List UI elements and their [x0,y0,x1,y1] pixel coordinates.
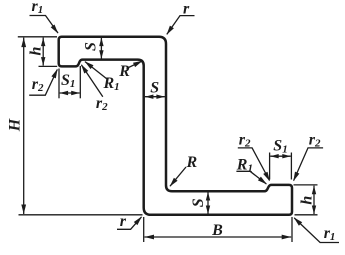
svg-text:R: R [186,154,198,171]
S bottom dimension line [207,192,209,214]
R top arrow [133,61,143,67]
h right extension bottom [295,214,318,216]
S top arrow up [99,38,103,47]
S top dimension line [100,38,102,59]
r1 bottom-right arrow [294,217,303,225]
svg-text:S: S [150,80,159,97]
h extension line [39,65,58,67]
R bottom leader [170,167,186,186]
H arrow down [21,205,26,215]
R top leader [127,61,143,68]
r2 top-left arrow [51,69,57,79]
svg-text:h: h [28,46,45,55]
r bottom-left arrow [134,216,142,225]
S top arrow down [99,50,103,59]
h right arrow down [312,206,316,215]
svg-text:h: h [298,196,315,205]
r2 bottom-step leader [238,148,270,181]
h right extension top [294,184,318,186]
S1 bottom extension right [290,153,292,180]
R1 top leader [85,62,107,79]
S1 bottom dimension line [270,155,291,157]
B dimension line [145,236,292,238]
svg-text:S: S [190,198,207,207]
S1 bottom arrow right [282,154,291,158]
r leader [167,16,195,35]
S bottom arrow up [206,192,210,201]
h right arrow up [312,186,316,195]
r1 leader [30,16,59,34]
H extension line bottom [19,214,143,216]
r1 arrow [51,25,59,34]
r2 top-step leader [81,65,102,97]
R1 bottom arrow [258,177,267,185]
S web arrow left [145,95,154,99]
S1 top dimension line [60,92,80,94]
r bottom-left leader [117,217,142,229]
r2 top-left leader [29,70,57,96]
zed profile outline [59,37,292,215]
r2 bottom-right leader [294,148,324,181]
H arrow up [21,38,26,48]
r1 bottom-right leader [294,218,339,243]
S1 bottom arrow left [270,154,279,158]
r2 top-step arrow [81,64,88,73]
S1 top extension right [79,66,81,98]
B extension left [143,217,145,242]
B arrow right [282,235,292,240]
svg-text:R: R [118,63,130,80]
r2 bottom-right arrow [293,172,299,182]
S1 top arrow left [60,91,69,95]
R1 bottom leader [236,171,266,184]
R bottom arrow [170,178,178,187]
R1 top arrow [85,61,94,69]
h dimension line [42,38,44,66]
S1 top arrow right [71,91,80,95]
r arrow [167,26,174,35]
S web arrow right [156,95,165,99]
r2 bottom-step arrow [263,172,270,182]
svg-text:B: B [211,222,223,239]
h right dimension line [313,186,315,214]
S1 bottom extension left [269,153,271,180]
B arrow left [145,235,155,240]
h arrow up [41,38,45,47]
S1 top extension left [58,69,60,99]
svg-text:H: H [6,118,23,132]
svg-text:r: r [183,1,190,18]
S web dimension line [145,96,165,98]
svg-text:S: S [82,42,99,51]
B extension right [291,217,293,242]
svg-text:r: r [120,213,127,230]
H extension line top [18,36,57,38]
h arrow down [41,57,45,66]
S bottom arrow down [206,206,210,215]
H dimension line [23,38,25,214]
